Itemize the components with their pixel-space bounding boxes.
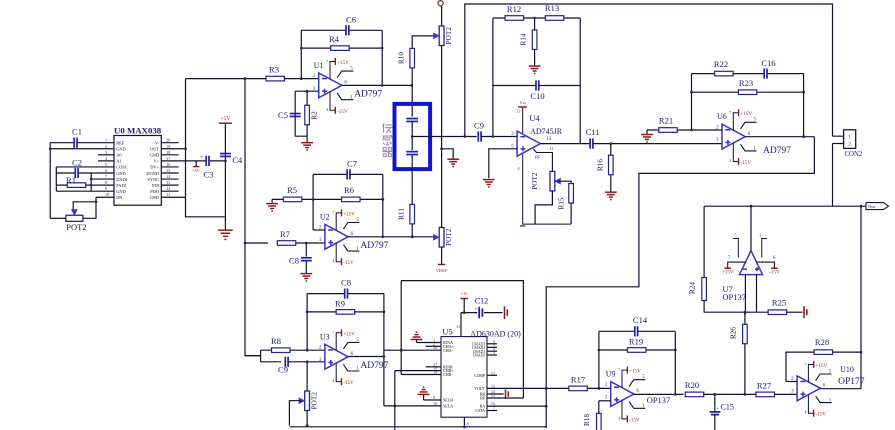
ground (U5 pin9, flipped) [418, 387, 430, 394]
svg-text:11: 11 [456, 324, 460, 329]
wire C8 drop [305, 243, 307, 257]
wire U4 pin5 to ground [489, 149, 517, 178]
wire U5 pin11 top stem [460, 313, 462, 337]
wire sensor lower cap to R11 [411, 155, 413, 205]
wire U5 pin7 stub [487, 410, 497, 412]
wire OUT top row to R3 column [186, 78, 246, 80]
svg-text:DADJ: DADJ [116, 177, 128, 182]
svg-text:IIN: IIN [116, 195, 123, 200]
wire U2 pin2 from loop [313, 229, 325, 231]
wire pin8 FADJ row with R1 [56, 184, 114, 186]
node flag Out [866, 203, 889, 210]
wire R18 stem [598, 401, 600, 414]
op-amp U3 AD797 [319, 329, 389, 386]
capacitor C8 (U3 loop) [341, 277, 351, 298]
wire U0 right pin 12 stub [161, 190, 178, 192]
wire U7 output up [750, 206, 752, 250]
potentiometer POT2 (U4) [531, 171, 560, 191]
wire C6 row [301, 29, 382, 31]
junction U9 out loop [674, 393, 677, 396]
resistor R16 label [597, 159, 605, 171]
wire C12 row [461, 312, 503, 314]
resistor R2 label [311, 111, 319, 120]
svg-text:+5V: +5V [192, 168, 199, 173]
wire R7 to U2 pin3 [296, 242, 325, 244]
svg-text:R24: R24 [689, 282, 697, 294]
wire U9 pin3 R18 [599, 400, 611, 402]
wire U4 output row [540, 143, 589, 145]
wire U5 pin8 bottom stem [463, 417, 465, 428]
wire U5 pin2 stub [426, 345, 441, 347]
svg-text:A0: A0 [116, 153, 122, 158]
svg-text:POT2: POT2 [311, 392, 319, 410]
ground (U5 pin1, flipped) [411, 332, 423, 339]
junction left rail pin2 [49, 147, 52, 150]
junction U1 pin3 [306, 90, 309, 93]
svg-text:R15: R15 [558, 197, 566, 209]
svg-text:R11: R11 [398, 208, 406, 220]
junction R23 left [690, 91, 693, 94]
junction R16 tap [609, 142, 612, 145]
wire U5 pin20 row [384, 349, 441, 351]
wire pin10 to pot right lead [83, 197, 96, 218]
wire U5 pin12 stub [487, 374, 497, 376]
op-amp U10 OP177 [791, 361, 865, 418]
svg-text:RF: RF [480, 397, 486, 401]
junction R9 right [383, 311, 386, 314]
wire U7 base left leg [744, 275, 746, 315]
svg-text:GND: GND [116, 189, 126, 194]
junction RA net VOUT cross [545, 387, 548, 390]
svg-text:CSTA: CSTA [475, 409, 485, 413]
svg-text:R2: R2 [311, 111, 319, 120]
wire net A riser [400, 281, 402, 375]
svg-text:-15V: -15V [629, 417, 640, 423]
wire U5 pin1 stub [417, 342, 442, 344]
junction CHA- net A riser [400, 349, 403, 352]
capacitor sensor upper [406, 119, 418, 122]
svg-text:17: 17 [166, 156, 170, 161]
wire R2 vertical [306, 91, 308, 136]
wire U5 pin4 stub [487, 350, 497, 352]
wire U4 loop right vertical [579, 18, 581, 144]
svg-text:-15V: -15V [740, 160, 751, 166]
resistor R8 [271, 336, 290, 353]
capacitor C12 (polarized) [474, 297, 488, 319]
junction mid rail pin7 [90, 178, 93, 181]
svg-text:Vss: Vss [519, 100, 526, 105]
resistor R16 [609, 155, 614, 175]
wire U10 feedback left [786, 381, 797, 383]
svg-text:SELA: SELA [443, 404, 453, 409]
svg-text:+: + [200, 154, 204, 161]
svg-text:C6: C6 [346, 14, 356, 24]
junction signal R3 [244, 77, 247, 80]
junction R19 left [598, 349, 601, 352]
wire U2 loop left vertical [312, 174, 314, 230]
capacitor C8 label [289, 255, 299, 265]
svg-text:1: 1 [759, 233, 761, 238]
svg-text:U10: U10 [840, 365, 854, 374]
wire R8/C9 input pair [245, 350, 281, 362]
capacitor C3 (polarized) [206, 156, 209, 166]
svg-text:C3: C3 [204, 170, 214, 180]
svg-text:POT2: POT2 [445, 27, 453, 45]
svg-text:13: 13 [491, 383, 495, 388]
svg-text:3: 3 [105, 150, 107, 155]
svg-text:U0 MAX038: U0 MAX038 [114, 126, 162, 136]
op-amp U7 OP137 [722, 233, 780, 303]
svg-text:R16: R16 [597, 159, 605, 171]
svg-text:C16: C16 [761, 58, 775, 68]
op-amp U6 AD797 [716, 109, 791, 166]
resistor R7 [277, 229, 296, 246]
wire pot left lead [50, 217, 66, 219]
junction C3 branch [224, 160, 227, 163]
svg-text:R27: R27 [757, 380, 771, 390]
junction R23 right [802, 91, 805, 94]
wire R24 top riser [703, 206, 705, 277]
svg-text:POT2: POT2 [66, 222, 86, 232]
svg-text:C9: C9 [278, 365, 288, 375]
wire pot wiper from bottom rail [289, 401, 301, 426]
svg-text:OP137: OP137 [722, 292, 746, 302]
capacitor C1 [72, 127, 82, 148]
svg-text:7: 7 [618, 368, 620, 373]
wire R10 to sensor box [411, 68, 413, 117]
svg-text:R12: R12 [507, 4, 521, 14]
svg-text:POT2: POT2 [445, 228, 453, 246]
resistor R4 [329, 34, 349, 50]
power -Vs mark [520, 225, 525, 227]
capacitor C16 [761, 58, 775, 79]
wire pin6 GND row with C2 [56, 172, 114, 174]
svg-text:V+: V+ [153, 159, 159, 164]
svg-text:9: 9 [433, 395, 435, 400]
svg-text:CON2: CON2 [845, 151, 863, 158]
wire R17 to U9 pin2 [588, 387, 611, 389]
svg-text:VOUT: VOUT [474, 387, 485, 391]
wire C9 to U4 pin3 [481, 136, 517, 138]
svg-text:C7: C7 [347, 159, 357, 169]
ground (R5) [266, 204, 278, 211]
resistor R17 [569, 374, 588, 390]
svg-text:12: 12 [491, 370, 495, 375]
svg-text:C1: C1 [72, 127, 82, 137]
resistor R2 [305, 105, 310, 125]
junction U6 out loop [802, 135, 805, 138]
junction U6 pin2 loop [690, 129, 693, 132]
svg-text:7: 7 [332, 210, 334, 215]
svg-text:AD797: AD797 [354, 90, 382, 100]
svg-text:FADJ: FADJ [116, 183, 126, 188]
wire U3 loop right vertical [383, 294, 385, 406]
svg-text:DGND: DGND [146, 171, 159, 176]
wire wiper branch [73, 202, 96, 211]
svg-text:R26: R26 [730, 327, 738, 339]
wire R14 stem [534, 18, 536, 66]
wire R7 branch [245, 242, 268, 244]
junction U7 out rail [750, 205, 753, 208]
wire U3 output row [348, 356, 384, 358]
junction R5/R6 loop left [312, 198, 315, 201]
svg-text:1: 1 [105, 138, 107, 143]
potentiometer POT2 (U0 FADJ) [66, 210, 87, 232]
wire U5 pin3 stub [487, 354, 497, 356]
wire R20 to R27 row [703, 393, 757, 395]
svg-text:11: 11 [549, 146, 554, 151]
svg-text:R9: R9 [335, 299, 345, 309]
svg-text:D0ADJ: D0ADJ [473, 354, 485, 358]
power mark R25 right [804, 306, 807, 318]
svg-text:+15V: +15V [815, 363, 827, 369]
wire CON2 pin2 to Out rail [832, 144, 834, 207]
wire +5V column [224, 124, 226, 230]
svg-text:12: 12 [166, 186, 170, 191]
power port circle [438, 1, 443, 6]
svg-text:-15V: -15V [343, 380, 354, 386]
svg-text:C12: C12 [475, 297, 488, 306]
wire U2 out to bottom pot wiper [412, 236, 435, 238]
svg-text:OP137: OP137 [647, 395, 671, 405]
resistor R3 [266, 64, 285, 81]
resistor R26 [743, 324, 748, 344]
wire tap riser to top [465, 4, 844, 137]
power mark C12 right [505, 306, 508, 319]
capacitor C15 (polarized) [710, 403, 734, 415]
wire U10 feedback riser [786, 352, 814, 381]
wire U1 output row [342, 84, 412, 86]
wire U0 right pin 14 stub [161, 178, 178, 180]
svg-text:7: 7 [326, 59, 328, 64]
svg-text:R21: R21 [659, 115, 673, 125]
wire pin5 COSC row [56, 166, 114, 168]
svg-text:AD630AD (20): AD630AD (20) [470, 330, 521, 339]
svg-text:R28: R28 [815, 337, 829, 347]
resistor R10 [410, 48, 415, 68]
junction U1 out loop [381, 84, 384, 87]
wire R19 row [599, 349, 675, 351]
wire signal column from OUT [245, 79, 261, 356]
svg-text:GND: GND [116, 147, 126, 152]
junction signal R7 [244, 242, 247, 245]
wire U4 loop left vertical [492, 18, 494, 137]
resistor R11 label [398, 208, 406, 220]
power +15 bar (C12) [461, 291, 469, 299]
wire R4 row [301, 47, 382, 49]
svg-text:+15V: +15V [343, 211, 355, 217]
wire pot rail vertical [441, 46, 443, 228]
wire left rail C1/POT2 [49, 143, 51, 219]
wire pot rail ground branch [442, 149, 454, 159]
junction R4 left [300, 47, 303, 50]
wire U5 pin18 row [395, 370, 441, 372]
junction pin18/pin10 rail [393, 405, 396, 408]
sensor text chuan-gan-qi [382, 123, 392, 156]
wire C15 stem [714, 394, 716, 411]
svg-text:C11: C11 [586, 127, 600, 137]
svg-text:R4: R4 [329, 34, 340, 44]
wire R12/R13 top row [493, 17, 580, 19]
svg-text:R19: R19 [629, 337, 643, 347]
svg-text:+15V: +15V [343, 331, 355, 337]
resistor R6 [342, 185, 361, 202]
wire R24 bottom [703, 301, 705, 313]
power +5V small tick [192, 167, 199, 173]
capacitor C14 [633, 315, 648, 336]
wire R26 stem [744, 312, 746, 394]
wire U1 loop left vertical [300, 30, 302, 78]
wire pin18 drop [394, 371, 396, 430]
wire U5 pin13 VOUT row [487, 387, 569, 389]
svg-text:10: 10 [433, 401, 437, 406]
capacitor C5 label [278, 110, 288, 120]
svg-text:Out: Out [868, 204, 876, 209]
resistor R25 [768, 297, 787, 314]
junction U3 pin3 pot [306, 360, 309, 363]
svg-text:R20: R20 [685, 380, 699, 390]
wire U0 right pin 20 stub [161, 142, 178, 144]
svg-text:12: 12 [546, 137, 552, 142]
svg-text:C14: C14 [633, 315, 648, 325]
resistor R14 label [520, 33, 528, 45]
wire +5V tick stem [195, 161, 197, 167]
wire left block rail [55, 167, 57, 191]
svg-text:PDO: PDO [150, 189, 159, 194]
op-amp U4 AD745JR [511, 100, 571, 224]
wire U5 pin5 stub [487, 346, 497, 348]
wire C11 to U6 pin3 row [593, 143, 722, 145]
svg-text:R25: R25 [772, 297, 786, 307]
ground (U0 supply) [218, 230, 233, 239]
junction pot rail ground tap [440, 147, 443, 150]
junction Out drop [860, 205, 863, 208]
ground (R16) [605, 192, 617, 199]
svg-text:REF: REF [116, 141, 125, 146]
svg-text:19: 19 [166, 144, 170, 149]
junction U1 pin2 feedback [300, 77, 303, 80]
svg-text:VREF: VREF [436, 268, 448, 273]
resistor R24 label [689, 282, 697, 294]
wire pin17 V+ row [161, 160, 225, 162]
junction C12 +15V [463, 311, 466, 314]
svg-text:+15V: +15V [629, 369, 641, 375]
svg-text:9: 9 [105, 186, 107, 191]
potentiometer POT2 (U3) [299, 391, 318, 411]
power +5V top [219, 116, 232, 123]
svg-text:R6: R6 [344, 185, 354, 195]
capacitor sensor lower [406, 152, 418, 155]
junction sensor mid tap [411, 135, 414, 138]
wire +15V stem (C12) [463, 299, 465, 313]
svg-text:C10: C10 [530, 91, 544, 101]
svg-text:R10: R10 [398, 52, 406, 64]
svg-text:DV+: DV+ [150, 165, 159, 170]
svg-text:18: 18 [166, 150, 170, 155]
svg-text:POT2: POT2 [531, 172, 539, 190]
wire pin3 to pot top [306, 362, 308, 391]
wire pin11 GND elbow to ground [161, 197, 225, 217]
svg-text:RF: RF [535, 155, 541, 160]
svg-text:SELB: SELB [443, 398, 453, 403]
svg-text:-15V: -15V [343, 260, 354, 266]
resistor R14 [532, 30, 537, 50]
wire sensor tap row [412, 136, 477, 138]
svg-text:U9: U9 [606, 370, 616, 379]
wire CON2 pin2 stub [833, 143, 844, 145]
wire U5 pin10 row [384, 405, 441, 407]
svg-text:-15V: -15V [769, 269, 780, 275]
resistor R18 label [583, 414, 591, 426]
svg-text:10: 10 [105, 192, 109, 197]
wire U9 loop left vertical [598, 331, 600, 388]
wire U5 pin19 row [401, 374, 441, 376]
svg-text:15: 15 [166, 168, 170, 173]
svg-text:11: 11 [166, 192, 170, 197]
wire R27 to U10 pin3 [774, 393, 797, 395]
svg-text:R5: R5 [287, 185, 297, 195]
junction R19 right [674, 349, 677, 352]
resistor R26 label [730, 327, 738, 339]
wire bottom rail [289, 426, 546, 428]
svg-text:8: 8 [105, 180, 107, 185]
svg-text:U1: U1 [314, 61, 324, 70]
wire R5 ground stem [271, 199, 273, 203]
svg-text:-15V: -15V [337, 109, 348, 115]
wire R5 R6 row [272, 198, 383, 200]
wire U0 right pin 13 stub [161, 184, 178, 186]
capacitor C6 [346, 14, 356, 35]
wire pin1 ground stem [416, 340, 418, 343]
svg-text:+15V: +15V [722, 269, 734, 275]
potentiometer POT2 (mid) [434, 228, 453, 248]
connector CON2 [844, 130, 863, 158]
wire U1 loop right vertical [381, 30, 383, 85]
wire C8 second row [307, 293, 384, 295]
wire pin2 GND row [50, 148, 114, 150]
svg-text:+: + [716, 406, 719, 412]
wire U6 loop right vertical [803, 74, 805, 137]
junction mid rail pin8 [90, 184, 93, 187]
wire Out drop to R28/U10 [860, 206, 862, 389]
wire R28 right [833, 351, 861, 353]
resistor R12 [505, 4, 524, 20]
wire R21 row [647, 129, 722, 131]
wire U9 loop right vertical [674, 331, 676, 394]
svg-text:5: 5 [735, 233, 737, 238]
resistor R23 [738, 78, 757, 94]
wire between sensor caps [411, 122, 413, 151]
capacitor C2 [72, 157, 82, 178]
resistor R15 [569, 184, 574, 204]
capacitor C9 (U4 input) [474, 121, 484, 142]
svg-text:R8: R8 [271, 336, 281, 346]
svg-text:R13: R13 [545, 3, 559, 13]
svg-text:16: 16 [166, 162, 170, 167]
wire U4 pot bottom [535, 191, 552, 224]
wire U5 pin15 RF row [487, 397, 523, 399]
svg-text:7: 7 [105, 174, 107, 179]
svg-text:+15: +15 [461, 291, 469, 296]
resistor R19 [627, 337, 646, 353]
wire C15 down [714, 415, 716, 430]
svg-text:U3: U3 [320, 332, 330, 341]
wire pin3 A0 stub [98, 154, 114, 156]
svg-text:C9: C9 [474, 121, 484, 131]
resistor R1 [66, 175, 86, 187]
resistor R18 [597, 413, 602, 430]
wire R25 right [787, 311, 803, 313]
